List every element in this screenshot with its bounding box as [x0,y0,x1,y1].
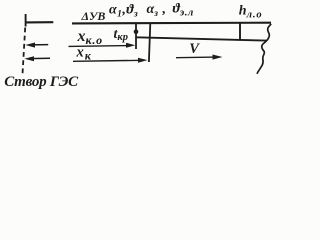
water surface line 1 [72,22,271,25]
arrow 3 head [126,43,135,48]
vertical B [149,23,150,62]
scan background [0,0,279,93]
left arrow 1 shaft [30,44,48,46]
svg-text:V: V [189,41,200,57]
dam axis top tick [25,14,27,27]
upper-left horizontal segment [25,21,53,23]
svg-text:ΔУВ: ΔУВ [81,9,106,23]
left arrow 2 head [24,56,34,61]
arrow 4 shaft (x k arrow) [73,60,142,61]
svg-text:Створ ГЭС: Створ ГЭС [4,74,79,90]
break wavy line [257,24,271,74]
velocity arrow head [213,55,223,60]
vertical C (right ordinate) [239,23,241,40]
dam axis dashed line [22,28,25,77]
arrow 4 head [138,58,148,63]
water surface line 2 [136,37,267,40]
node dot on vertical A [134,29,139,34]
left arrow 1 head [25,43,35,48]
velocity arrow shaft [176,56,216,59]
left arrow 2 shaft [29,57,50,59]
arrow 3 shaft (x k.o arrow) [69,45,131,48]
svg-text:α1,ϑз: α1,ϑз [109,3,138,20]
vertical A (critical point line) [135,23,137,49]
